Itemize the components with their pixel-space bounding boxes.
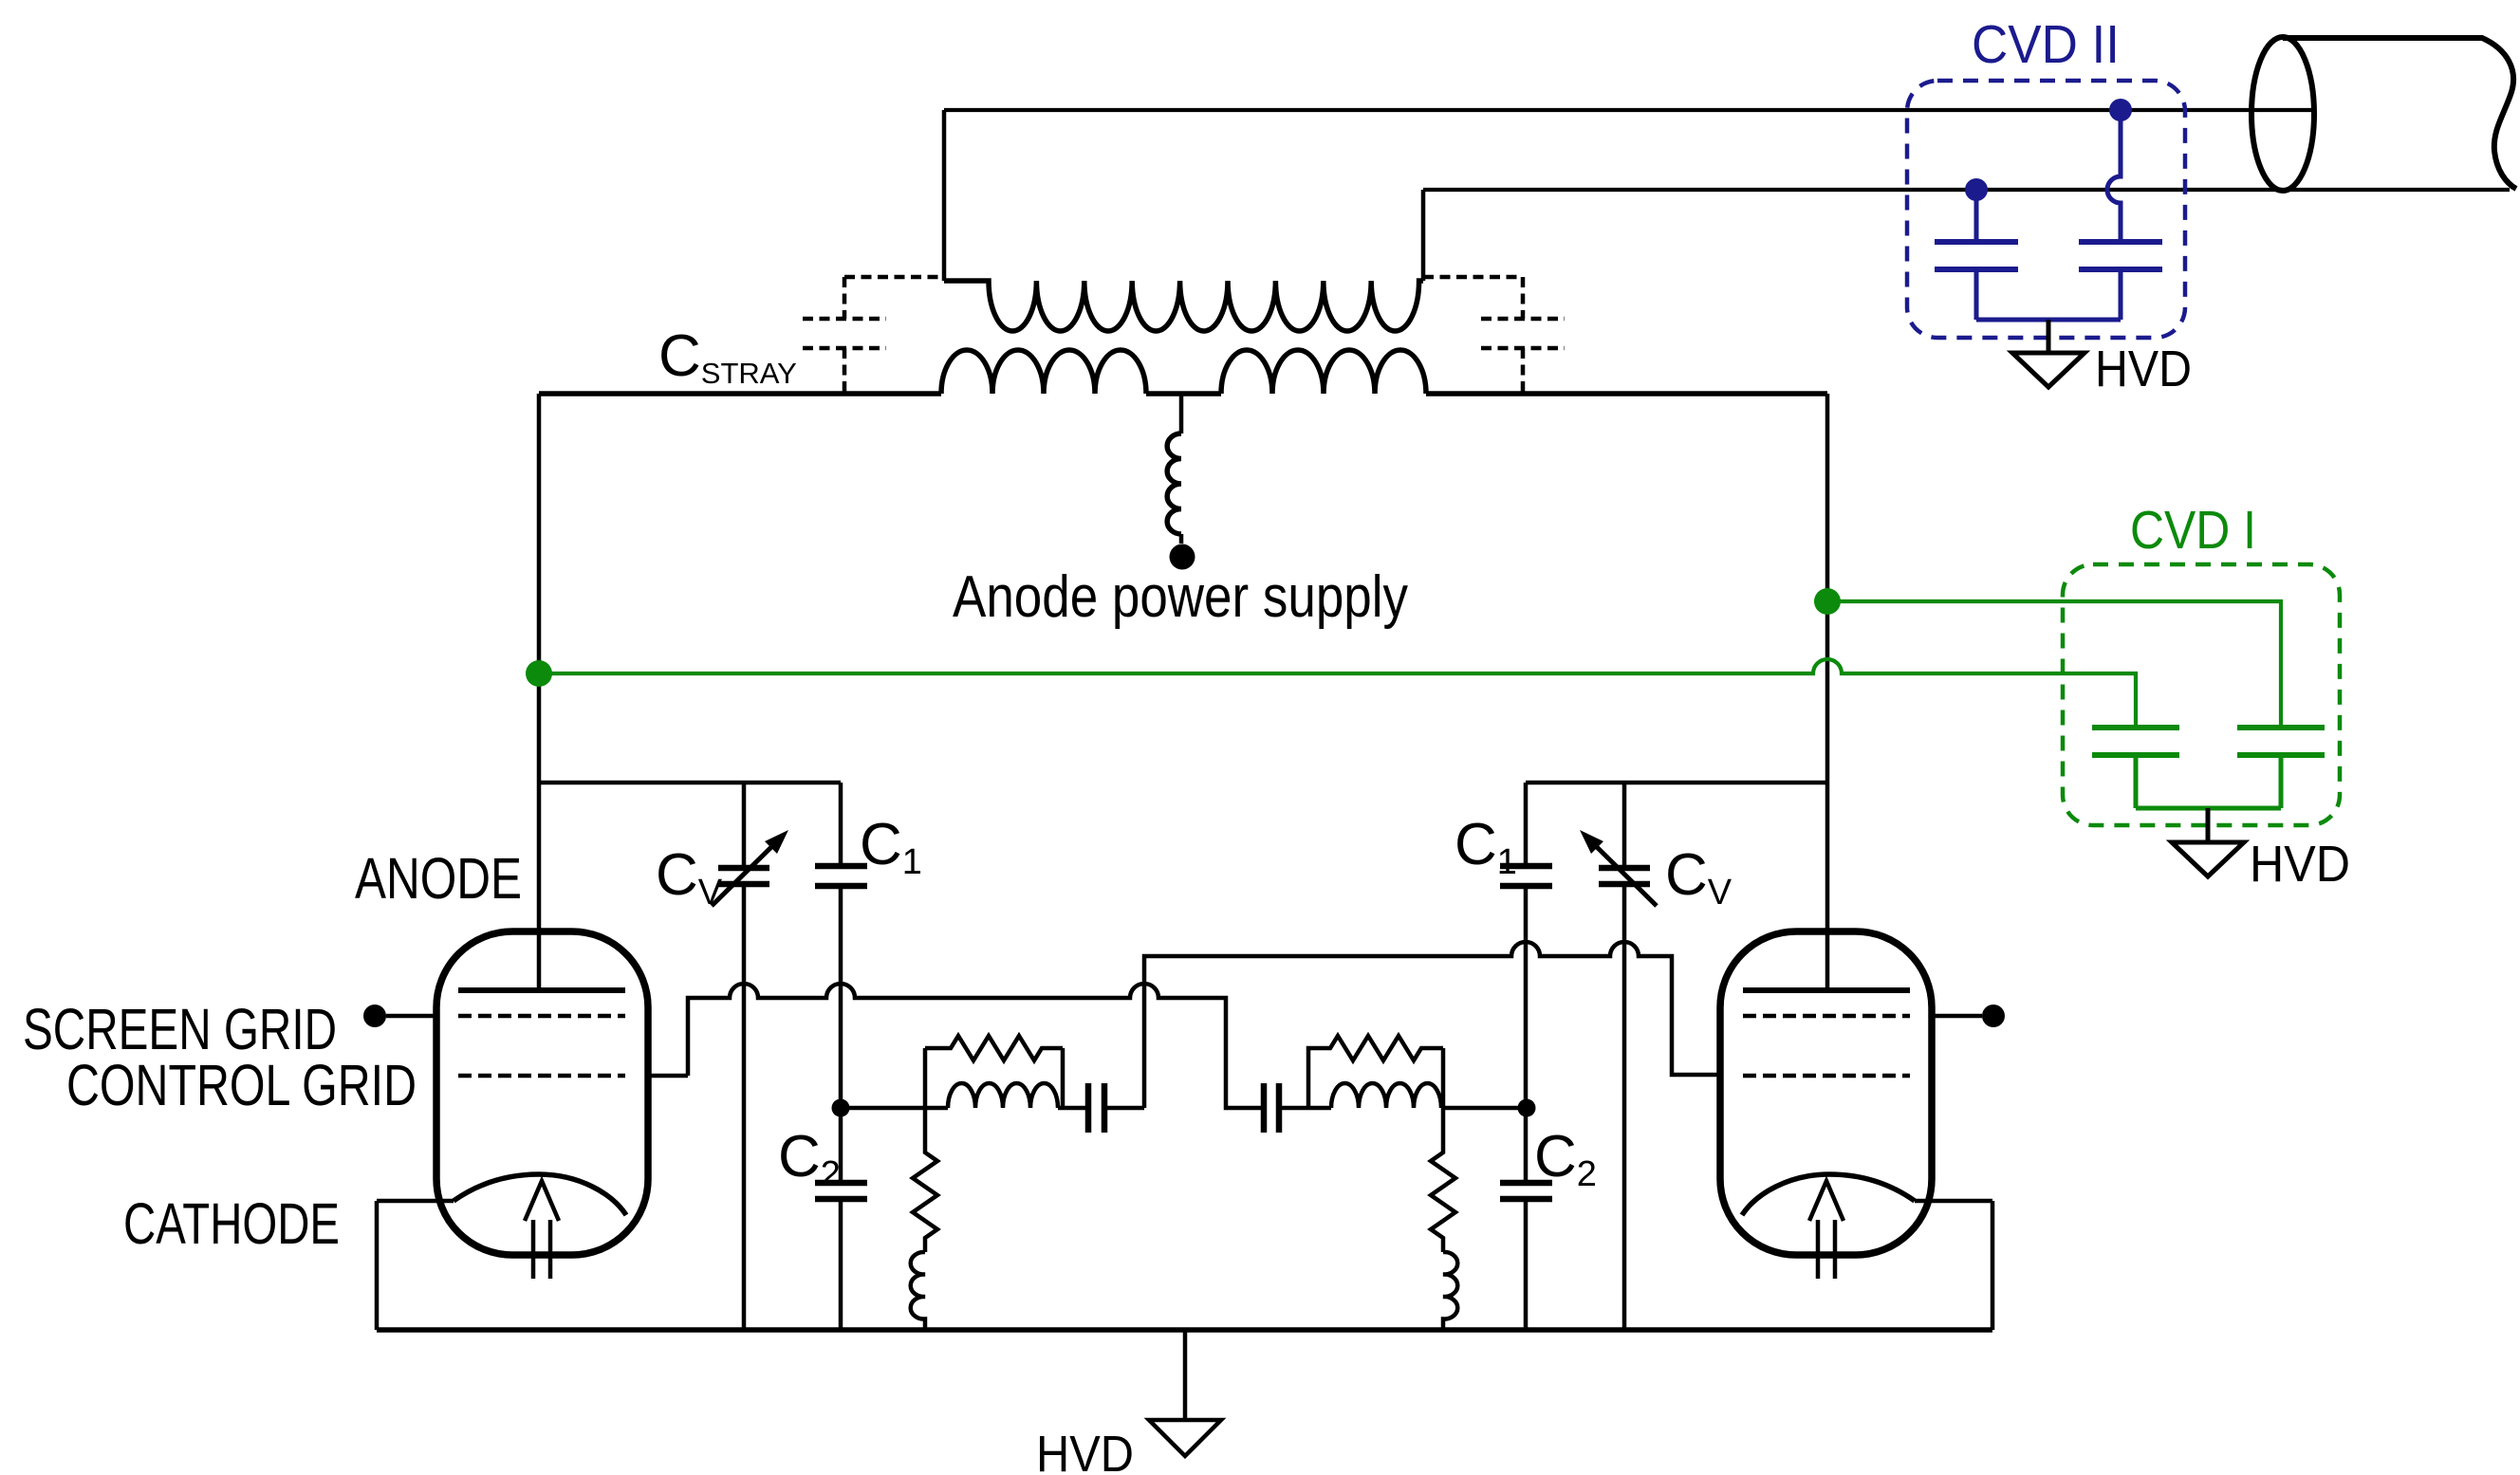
svg-text:ANODE: ANODE: [355, 846, 522, 911]
control grid right (dashed): [1743, 1074, 1910, 1079]
svg-text:SCREEN GRID: SCREEN GRID: [23, 997, 337, 1061]
wire right anode vertical: [1825, 394, 1830, 990]
wire cathode left down: [377, 1201, 454, 1330]
arrow of CV left: [712, 845, 773, 906]
node dot on second line: [1965, 178, 1988, 201]
capacitor CV left (variable): [742, 783, 747, 1330]
wire right anode branch to Cv C1: [1526, 781, 1827, 785]
svg-text:C1: C1: [860, 812, 922, 882]
wire cap to right RL: [1279, 1106, 1331, 1111]
capacitor C2 left: [839, 1199, 843, 1330]
svg-text:C2: C2: [1534, 1124, 1597, 1194]
capacitor CV right (variable): [1622, 783, 1627, 1330]
node C2 left dot: [832, 1099, 850, 1117]
wire center tap drop: [1179, 394, 1184, 433]
coax cable body: [2283, 38, 2516, 189]
inductor right grid choke (3 loops): [1443, 1252, 1457, 1330]
anode plate right: [1743, 987, 1910, 993]
tube V1 left tetrode envelope: [436, 931, 648, 1255]
node C2 right dot: [1518, 1099, 1536, 1117]
control grid left (dashed): [458, 1074, 625, 1079]
svg-text:C2: C2: [778, 1124, 841, 1194]
wire left grid bus with hops: [648, 984, 1264, 1108]
inductor RF choke to anode power supply (3 loops): [1167, 433, 1181, 534]
inductor of left RL (4 small loops): [948, 1083, 1058, 1108]
coax cable left end cap: [2251, 37, 2314, 191]
wire HVD tap: [1183, 1330, 1188, 1420]
inductor L2 secondary coil (9 loops): [944, 281, 1423, 331]
wire left RL to cap: [1058, 1106, 1088, 1111]
wire tank lower rail left: [539, 391, 941, 396]
wire top-left vertical drop to tank coil: [942, 110, 947, 281]
wire coil right vertical up: [1421, 190, 1426, 281]
inductor L1b primary right half (4 loops): [1221, 350, 1426, 394]
svg-text:CV: CV: [1665, 842, 1732, 913]
svg-text:CATHODE: CATHODE: [123, 1191, 340, 1256]
ground HVD center: [1149, 1420, 1221, 1456]
anode plate left: [458, 987, 625, 993]
capacitor CVD I right: [2279, 755, 2284, 808]
svg-text:HVD: HVD: [1036, 1426, 1134, 1475]
box CVD I (dashed): [2063, 564, 2340, 825]
wire green lower (left anode to CVD I) with hop: [539, 659, 2136, 728]
capacitor C1 left: [839, 783, 843, 1183]
wire green upper (right anode to CVD I): [1827, 601, 2281, 728]
svg-text:CSTRAY: CSTRAY: [658, 323, 797, 390]
wire cap to corner: [1104, 1106, 1144, 1111]
cathode right: [1742, 1174, 1915, 1215]
wire left node to left RL: [841, 1106, 948, 1111]
screen grid right terminal: [1932, 1014, 1982, 1019]
svg-text:HVD: HVD: [2250, 836, 2350, 893]
svg-text:CV: CV: [656, 842, 723, 913]
capacitor C1 right: [1524, 783, 1529, 1183]
capacitor CSTRAY left (dashed stray capacitance): [803, 277, 944, 394]
svg-text:CVD II: CVD II: [1972, 14, 2120, 75]
svg-text:HVD: HVD: [2095, 341, 2192, 397]
capacitor neutralizing right (series): [1264, 1083, 1279, 1133]
wire second output line (to coax shield): [1423, 188, 2510, 192]
ground HVD of CVD I: [2172, 842, 2244, 876]
resistor-inductor parallel left: [925, 1036, 1063, 1108]
wire CVD II bottom bar: [1976, 318, 2121, 323]
svg-text:CVD I: CVD I: [2130, 500, 2256, 561]
node dot green left: [526, 660, 552, 687]
wire right RL to node: [1441, 1106, 1526, 1111]
capacitor CSTRAY right (dashed stray capacitance): [1423, 277, 1565, 394]
svg-text:C1: C1: [1455, 812, 1517, 882]
inductor left grid choke (3 loops): [911, 1252, 925, 1330]
node screen grid right dot: [1982, 1005, 2005, 1027]
capacitor CVD I left: [2134, 755, 2139, 808]
capacitor CVD II right with hop: [2107, 110, 2121, 320]
wire tank lower rail right: [1426, 391, 1827, 396]
wire tank lower rail center: [1146, 391, 1221, 396]
resistor grid leak right vertical: [1431, 1108, 1455, 1252]
heater arrow left: [525, 1181, 559, 1279]
capacitor C2 right: [1524, 1199, 1529, 1330]
cathode left: [454, 1174, 626, 1215]
arrowhead CV right: [1580, 830, 1603, 854]
arrowhead CV left: [765, 830, 788, 854]
svg-text:Anode power supply: Anode power supply: [953, 564, 1408, 630]
arrow of CV right: [1595, 845, 1657, 906]
node screen grid left dot: [363, 1005, 386, 1027]
wire top output line (anode A to coax center): [944, 108, 2315, 112]
screen grid right (dashed): [1743, 1014, 1910, 1019]
screen grid left (dashed): [458, 1014, 625, 1019]
node anode power supply dot: [1170, 544, 1195, 570]
inductor of right RL (4 small loops): [1331, 1083, 1441, 1108]
node dot green right: [1814, 588, 1841, 615]
wire CVD I ground stub: [2206, 808, 2211, 842]
box CVD II (dashed): [1907, 81, 2185, 338]
wire bottom ground rail: [377, 1327, 1992, 1333]
wire CVD II ground stub: [2047, 320, 2051, 353]
wire CVD I bottom bar: [2136, 806, 2281, 811]
wire left anode vertical: [537, 394, 542, 990]
CVD I group (green): [526, 564, 2340, 825]
CVD II group (navy): [1907, 81, 2185, 338]
svg-text:CONTROL GRID: CONTROL GRID: [66, 1053, 417, 1117]
capacitor CVD II left: [1974, 190, 1979, 320]
heater arrow right: [1809, 1181, 1844, 1279]
resistor-inductor parallel right: [1308, 1036, 1443, 1108]
wire right grid bus with hops: [1144, 942, 1720, 1108]
capacitor neutralizing left (series): [1088, 1083, 1104, 1133]
wire left anode branch to Cv C1: [539, 781, 841, 785]
screen grid left terminal: [386, 1014, 436, 1019]
wire choke bottom stub: [1179, 534, 1184, 544]
inductor L1a primary left half (4 loops): [941, 350, 1146, 394]
wire cathode right down: [1915, 1201, 1992, 1330]
ground HVD of CVD II: [2012, 353, 2085, 387]
tube V2 right tetrode envelope: [1720, 931, 1932, 1255]
resistor grid leak left vertical: [913, 1108, 937, 1252]
node dot on top line: [2109, 99, 2132, 121]
